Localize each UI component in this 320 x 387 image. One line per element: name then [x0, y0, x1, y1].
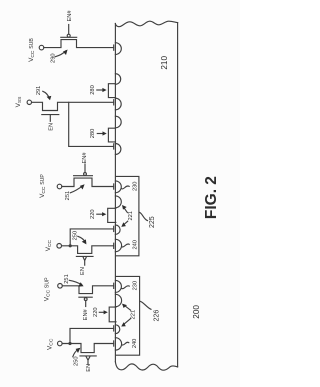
svg-text:200: 200 [192, 305, 201, 319]
transistor Q250a gate bar [76, 255, 93, 257]
svg-text:225: 225 [149, 216, 156, 228]
transistor Q290 source/drain wire [44, 40, 114, 48]
diffusion bump (290 drain) [115, 43, 121, 55]
leader squiggle 230 (box 226) [122, 286, 129, 289]
transistor Q290 gate lead [68, 25, 70, 35]
leader squiggle 225 [139, 212, 147, 220]
svg-text:EN#: EN# [82, 152, 88, 164]
svg-text:291: 291 [36, 86, 42, 96]
region 210 top break (wavy) edge [115, 21, 177, 26]
svg-text:240: 240 [133, 240, 139, 250]
svg-text:VCC SUB: VCC SUB [28, 38, 36, 62]
arrowhead 221a lower [121, 222, 126, 227]
transistor Q290 gate bar [61, 36, 77, 38]
svg-text:240: 240 [132, 339, 138, 349]
svg-text:220: 220 [90, 209, 96, 219]
contact tick (250a lower) [113, 243, 115, 248]
transistor Q251b gate bubble [84, 298, 87, 301]
leader arrow for 290 [55, 51, 66, 57]
arrowhead 221b lower [121, 322, 126, 326]
leader arrow for 250a [78, 236, 86, 242]
svg-text:EN#: EN# [67, 10, 73, 22]
tab 280 (upper) [108, 84, 115, 98]
region 210/200 right edge [177, 23, 179, 367]
arrowhead 250b [76, 348, 81, 353]
diffusion bump 230 (box 226) [115, 280, 121, 292]
svg-text:221: 221 [130, 310, 136, 320]
tab 220 (box 225) [108, 208, 116, 222]
label arrow 221b to lower bump [123, 319, 130, 325]
svg-text:VCC: VCC [45, 239, 53, 251]
tab 220 (box 226) [109, 307, 116, 322]
diffusion bump 221 upper (box 226) [115, 294, 121, 306]
svg-text:251: 251 [64, 274, 70, 284]
contact tick (250b lower) [113, 341, 115, 346]
transistor Q291 gate bar [42, 114, 59, 116]
terminal VCC (lower) [58, 341, 63, 346]
transistor Q251a gate bar [74, 175, 93, 177]
terminal VCC_SUP (upper) [57, 184, 62, 189]
arrowhead 280 lower [103, 131, 107, 135]
diffusion bump 240 (box 225) [115, 239, 121, 251]
svg-text:226: 226 [154, 310, 161, 322]
svg-text:EN: EN [80, 267, 86, 275]
transistor Q290 gate bubble [67, 34, 70, 37]
diffusion bump 221 upper (box 225) [115, 196, 121, 208]
region 200 bottom break (wavy) edge [115, 362, 177, 370]
transistor Q251b gate bar [79, 296, 92, 298]
diffusion bump (291 lower) [115, 144, 121, 155]
svg-text:250: 250 [73, 356, 79, 366]
leader arrow for 251b [69, 280, 82, 285]
arrowhead 291 [47, 96, 52, 100]
contact tick (291 lower) [113, 144, 115, 149]
leader squiggle 230 (box 225) [122, 186, 130, 189]
diffusion bump 221 lower (box 225) [115, 225, 120, 234]
transistor Q251a gate lead [84, 164, 86, 173]
svg-text:EN: EN [48, 123, 54, 131]
junction dot (250a) [69, 244, 72, 247]
svg-text:210: 210 [160, 56, 169, 70]
arrowhead 221a upper [122, 205, 127, 210]
diffusion bump 230 (box 225) [115, 181, 121, 193]
junction dot (250b) [68, 342, 71, 345]
label arrow 280 lower [97, 133, 104, 135]
leader squiggle 240 (box 226) [122, 342, 129, 345]
box 225 [116, 176, 139, 255]
svg-text:250: 250 [73, 231, 79, 241]
transistor Q250b source/drain wire [62, 344, 113, 353]
contact tick (290 wire) [113, 45, 115, 50]
transistor Q250a gate arrow lead [83, 257, 86, 265]
contact tick (291 upper) [113, 100, 115, 105]
box 226 [116, 276, 140, 355]
svg-text:221: 221 [128, 211, 134, 221]
contact tick (250b upper) [113, 326, 115, 331]
arrowhead 251a [80, 184, 85, 189]
svg-text:VCC: VCC [46, 338, 54, 350]
contact tick (251a wire) [113, 184, 115, 189]
wire 250b riser to upper bump [70, 328, 114, 343]
transistor Q251b gate lead [85, 301, 87, 307]
contact tick (250a upper) [113, 226, 115, 231]
transistor Q250a source/drain wire [62, 246, 114, 254]
label arrow 280 upper [97, 89, 105, 91]
diffusion bump (floating, mid) [115, 116, 121, 128]
tab 280 (lower) [108, 128, 115, 142]
svg-text:VCC SUP: VCC SUP [44, 277, 52, 301]
svg-text:251: 251 [65, 191, 71, 201]
label arrow 220 lower [99, 311, 105, 313]
terminal VCC_SUB [39, 45, 44, 50]
label arrow 221b to upper bump [124, 305, 131, 310]
transistor Q291 gate lead [49, 115, 51, 122]
wire 291 branch down [69, 102, 114, 146]
svg-text:EN: EN [86, 364, 92, 372]
label arrow 221a to upper bump [124, 207, 128, 213]
svg-text:280: 280 [90, 85, 96, 95]
svg-text:230: 230 [133, 281, 139, 291]
svg-text:290: 290 [51, 53, 57, 63]
svg-text:230: 230 [133, 182, 139, 192]
leader squiggle 240 (box 225) [122, 244, 129, 247]
arrowhead 220 upper [102, 212, 106, 216]
terminal VCC_SUP (lower) [58, 284, 63, 289]
arrowhead 250a [82, 239, 87, 244]
diffusion bump (floating, upper) [115, 74, 120, 85]
transistor Q251b source/drain wire [62, 286, 113, 294]
arrowhead 280 upper [102, 88, 106, 92]
terminal VCC (upper) [57, 244, 62, 249]
svg-text:FIG. 2: FIG. 2 [203, 176, 220, 219]
arrowhead 220 lower [104, 310, 108, 314]
transistor Q291 source/drain wire [32, 102, 114, 110]
region 210/200 left edge [114, 24, 116, 362]
diffusion bump (291 upper) [115, 98, 121, 110]
diffusion bump 240 (box 226) [115, 338, 121, 350]
svg-text:280: 280 [90, 129, 96, 139]
svg-text:VSS: VSS [15, 96, 23, 108]
transistor Q251a source/drain wire [62, 178, 114, 186]
svg-text:VCC SUP: VCC SUP [39, 174, 47, 198]
transistor Q250b gate arrow lead [86, 357, 90, 365]
transistor Q250b gate bar [80, 355, 96, 357]
leader arrow for 251a [70, 186, 82, 193]
label arrow 220 upper [97, 213, 104, 215]
arrowhead 221b upper [122, 304, 127, 308]
leader arrow for 250b [73, 349, 79, 357]
transistor Q251a gate bubble [84, 173, 87, 176]
contact tick (251b wire) [113, 283, 115, 288]
leader arrow for 291 [43, 91, 49, 98]
label arrow 221a to lower bump [123, 221, 127, 225]
svg-text:220: 220 [93, 307, 99, 317]
terminal VSS [27, 100, 31, 104]
arrowhead 290 [63, 50, 68, 56]
arrowhead 251b [78, 282, 83, 286]
leader squiggle 226 [140, 301, 151, 309]
wire 250a riser to upper bump [70, 229, 113, 246]
diffusion bump 221 lower (box 226) [115, 325, 119, 334]
svg-text:EN#: EN# [83, 308, 89, 320]
